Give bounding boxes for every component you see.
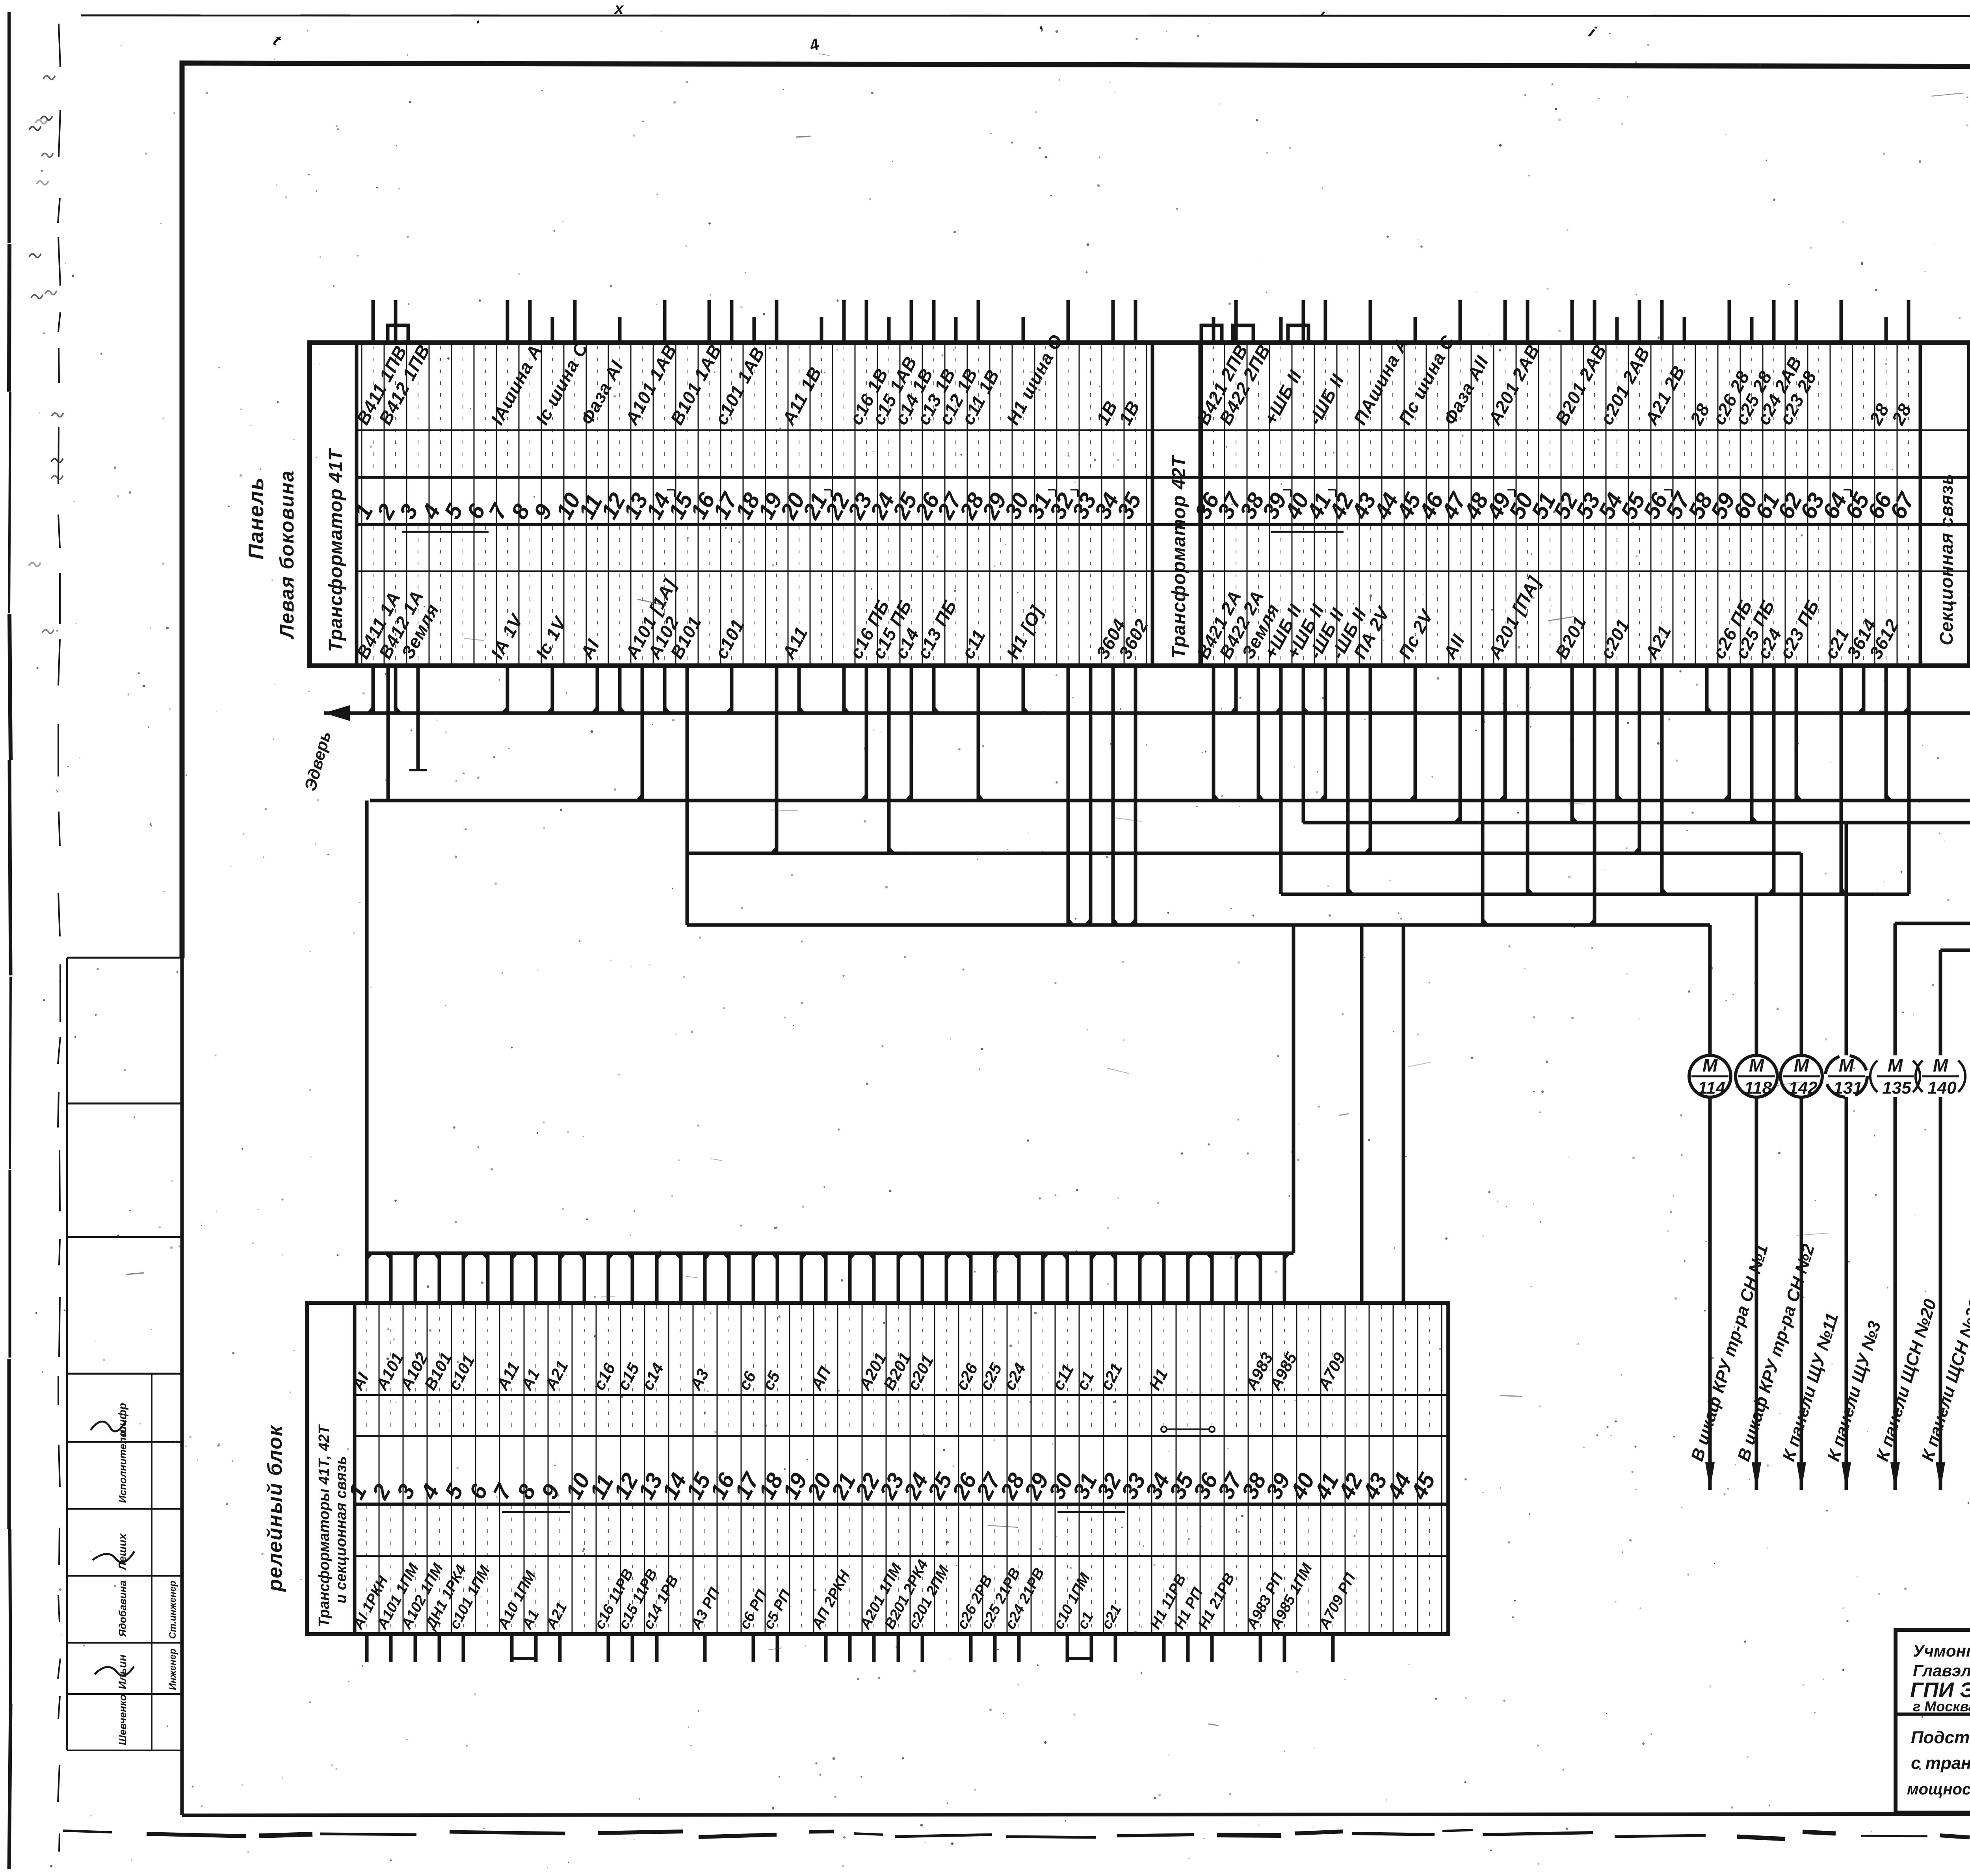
terminal strip: panel left side row: [310, 343, 1970, 666]
strip horizontal rule above bottom labels: [357, 570, 1970, 572]
wire: strip col40 to bus3 left end: [1302, 666, 1305, 823]
terminal 25: [888, 300, 937, 666]
terminal 41: [1302, 300, 1348, 666]
riser: gather bus end up to bus6: [1292, 925, 1295, 1253]
wire: relay 29 to gather bus: [1041, 1253, 1045, 1303]
terminal 44: [1369, 343, 1404, 666]
svg-text:131: 131: [1833, 1078, 1862, 1098]
relay terminal 6: [464, 1253, 493, 1634]
left margin stamp column: [67, 957, 182, 959]
terminal 4: [417, 343, 446, 666]
relay block rule below numbers: [355, 1503, 1448, 1506]
wire: relay 24 to gather bus: [921, 1253, 924, 1303]
relay terminal 42: [1333, 1303, 1368, 1634]
terminal 40: [1280, 300, 1328, 666]
wire: strip col15 long riser to bus6 (past bus4 corner): [686, 666, 689, 925]
svg-text:Учмонтажспецстрои СССР: Учмонтажспецстрои СССР: [1913, 1642, 1970, 1660]
terminal 33: [1067, 343, 1102, 666]
relay 26 bottom stub: [969, 1634, 973, 1662]
long riser to relay col 44: [1402, 925, 1405, 1303]
bus wire 7 (from M 135): [1895, 922, 1970, 925]
svg-text:г Москва: г Москва: [1913, 1698, 1970, 1714]
relay 4 bottom stub: [438, 1634, 441, 1662]
jumper bracket marks in number row: [667, 489, 675, 490]
relay terminal 2: [367, 1253, 422, 1662]
svg-text:114: 114: [1698, 1078, 1725, 1098]
wire: terminal 43 drop: [1369, 666, 1372, 853]
terminal 59: [1706, 300, 1756, 666]
wire: relay 4 to gather bus: [438, 1253, 441, 1303]
svg-text:140: 140: [1927, 1078, 1957, 1098]
title block frame: [1896, 1630, 1970, 1813]
left dashed margin line: [59, 24, 60, 67]
wire: terminal 32 drop: [1067, 666, 1070, 925]
wire: terminal 19 drop: [775, 666, 779, 853]
svg-text:Ильин: Ильин: [116, 1655, 128, 1689]
svg-text:Панель: Панель: [244, 477, 268, 559]
terminal 17: [708, 300, 769, 666]
terminal 49: [1481, 300, 1545, 666]
wire: strip col2-area second drop to bus2: [387, 666, 390, 801]
header box: Трансформатор 42Т: [1152, 343, 1200, 666]
wire: relay 23 to gather bus: [897, 1253, 900, 1303]
relay 20 bottom stub: [824, 1634, 828, 1662]
svg-text:и секционная связь: и секционная связь: [333, 1456, 349, 1603]
relay terminal 32: [1092, 1253, 1126, 1662]
relay 5 bottom stub: [462, 1634, 465, 1662]
relay 21 bottom stub: [848, 1634, 852, 1662]
wire: terminal 49 drop: [1504, 666, 1507, 801]
wire: terminal 60 drop: [1750, 666, 1754, 823]
wire: terminal 48 drop: [1481, 666, 1485, 925]
wire: terminal 26 drop: [932, 666, 936, 713]
terminal 67: [1885, 300, 1920, 666]
relay 1 bottom stub: [365, 1634, 369, 1662]
relay terminal 19: [778, 1253, 812, 1634]
wire: terminal 53 drop: [1593, 666, 1596, 925]
relay 39 bottom stub: [1283, 1634, 1286, 1662]
relay terminal 18: [754, 1253, 795, 1662]
wire: relay 33 to gather bus: [1138, 1253, 1142, 1303]
svg-text:М: М: [1839, 1055, 1855, 1075]
wire: relay 10 to gather bus: [583, 1253, 586, 1303]
relay terminal 35: [1164, 1253, 1206, 1662]
relay terminal 26: [947, 1253, 996, 1662]
svg-text:Леших: Леших: [116, 1533, 128, 1571]
terminal 15: [663, 341, 725, 666]
svg-text:Левая боковина: Левая боковина: [276, 470, 298, 639]
terminal 1: [349, 300, 411, 666]
svg-text:Секционная связь: Секционная связь: [1936, 474, 1957, 645]
terminal 23: [843, 300, 894, 666]
relay 28 bottom stub: [1017, 1634, 1021, 1662]
relay terminal 9: [536, 1253, 572, 1662]
relay 13 bottom stub: [655, 1634, 659, 1662]
svg-text:М: М: [1933, 1055, 1949, 1075]
wire: terminal 11 drop: [596, 666, 599, 713]
cable circuit M 114: [1688, 925, 1772, 1490]
relay terminal 24: [899, 1253, 953, 1662]
terminal 20: [775, 343, 826, 666]
wire: relay 32 to gather bus: [1114, 1253, 1117, 1303]
strip horizontal rule under top labels: [357, 429, 1970, 431]
wire: terminal 41 drop: [1324, 666, 1327, 801]
wire: terminal 28 drop: [977, 666, 980, 801]
underline below numbers 3-5: [402, 531, 489, 533]
wire: relay 1 to gather bus: [365, 1253, 369, 1303]
relay terminal 17: [730, 1253, 771, 1662]
relay terminal 4: [416, 1253, 470, 1662]
left margin scan scribbles: [29, 254, 41, 258]
terminal 62: [1773, 300, 1823, 666]
relay 23 bottom stub: [897, 1634, 900, 1662]
wire: terminal 7 drop: [506, 666, 509, 713]
relay 36 bottom stub: [1210, 1634, 1214, 1662]
relay 17 bottom stub: [752, 1634, 755, 1662]
relay 12 bottom stub: [631, 1634, 634, 1662]
relay terminal 8: [512, 1253, 543, 1662]
relay terminal 14: [657, 1253, 692, 1634]
relay 9 bottom stub: [558, 1634, 562, 1662]
svg-text:Исполнители: Исполнители: [117, 1431, 128, 1503]
wire: strip col67 down to bus5 right end: [1907, 666, 1911, 894]
terminal 42: [1324, 343, 1371, 666]
wire: terminal 36 drop: [1212, 666, 1215, 801]
wire: relay 19 to gather bus: [800, 1253, 803, 1303]
terminal 63: [1795, 343, 1830, 666]
wire: terminal 33 drop: [1089, 666, 1093, 925]
wire: relay 3 to gather bus: [414, 1253, 417, 1303]
terminal 68: [1963, 300, 1970, 666]
relay 22 bottom stub: [872, 1634, 876, 1662]
relay terminal 25: [923, 1253, 957, 1634]
wire: terminal 1 drop: [372, 666, 375, 713]
relay terminal 21: [826, 1253, 861, 1662]
relay block rule above bottom labels: [355, 1555, 1448, 1557]
terminal 24: [865, 317, 921, 666]
wire: terminal 2 drop: [394, 666, 398, 713]
wire: relay 35 to gather bus: [1186, 1253, 1190, 1303]
terminal 16: [686, 300, 720, 666]
wire: relay 7 to gather bus: [510, 1253, 514, 1303]
svg-text:мощностью от 6,3до25МВа: мощностью от 6,3до25МВа: [1907, 1781, 1970, 1798]
wire: terminal 13 drop: [641, 666, 644, 801]
terminal 14: [641, 300, 683, 666]
wire: relay 5 to gather bus: [462, 1253, 465, 1303]
svg-text:Инженер: Инженер: [167, 1649, 178, 1690]
wire: relay 12 to gather bus: [631, 1253, 634, 1303]
relay 31 bottom stub: [1090, 1634, 1093, 1662]
relay gather bus: [367, 1252, 1294, 1255]
terminal 30: [1000, 317, 1067, 666]
relay block terminal row: [307, 1303, 1448, 1634]
relay terminal 36: [1188, 1253, 1238, 1662]
relay 18 bottom stub: [776, 1634, 779, 1662]
relay terminal 39: [1261, 1253, 1316, 1662]
wire: relay 26 to gather bus: [969, 1253, 973, 1303]
terminal 26: [910, 300, 961, 666]
underline below relay numbers 7-9: [502, 1511, 570, 1513]
terminal 56: [1638, 300, 1689, 666]
relay terminal 12: [609, 1253, 661, 1662]
wire: relay 38 to gather bus: [1259, 1253, 1262, 1303]
relay terminal 37: [1213, 1253, 1248, 1634]
wire: relay 18 to gather bus: [776, 1253, 779, 1303]
cable circuit M 131: [1824, 823, 1885, 1490]
underline below numbers 39-41: [1271, 531, 1344, 533]
relay loop symbol below cols 30-31: [1067, 1634, 1091, 1659]
header box: Секционная связь: [1920, 343, 1969, 666]
wire: terminal 30 drop: [1022, 666, 1025, 713]
relay terminal 29: [1019, 1253, 1054, 1634]
relay terminal 16: [705, 1253, 740, 1634]
wire: terminal 17 drop: [730, 666, 734, 713]
relay terminal 3: [392, 1253, 447, 1662]
relay terminal 7: [488, 1253, 539, 1662]
wire: relay 27 to gather bus: [993, 1253, 997, 1303]
terminal 7: [484, 300, 546, 666]
relay 3 bottom stub: [414, 1634, 417, 1662]
wire: terminal 47 drop: [1459, 666, 1462, 823]
relay terminal 11: [585, 1253, 637, 1662]
long wire: bus2 down to relay gather: [365, 801, 369, 1253]
terminal 21: [798, 317, 833, 666]
svg-text:релейный блок: релейный блок: [264, 1425, 286, 1592]
header box: Трансформатор 41Т: [310, 343, 357, 666]
terminal 38: [1235, 343, 1283, 666]
relay terminal 30: [1044, 1253, 1094, 1662]
wire: terminal 56 drop: [1660, 666, 1664, 894]
terminal 61: [1750, 300, 1806, 666]
relay terminal 13: [633, 1253, 682, 1662]
terminal 19: [753, 300, 788, 666]
terminal 46: [1414, 343, 1449, 666]
terminal 51: [1526, 343, 1561, 666]
door loop symbols above strip: [388, 325, 408, 342]
wire: relay 31 to gather bus: [1090, 1253, 1093, 1303]
wire: relay 6 to gather bus: [486, 1253, 490, 1303]
wire: terminal 39 drop: [1279, 666, 1283, 713]
wire: terminal 40 drop: [1302, 666, 1305, 713]
wire: terminal 38 drop: [1257, 666, 1260, 801]
relay 15 bottom stub: [703, 1634, 707, 1662]
relay terminal 38: [1237, 1253, 1287, 1662]
bus wire 8 (from M 140): [1940, 949, 1970, 952]
wire: relay 14 to gather bus: [679, 1253, 683, 1303]
terminal 50: [1504, 300, 1539, 666]
wire: terminal 24 drop: [887, 666, 891, 853]
svg-text:Трансформатор 42Т: Трансформатор 42Т: [1169, 455, 1189, 659]
ground stub wire (Земля) col 3: [416, 666, 420, 770]
relay terminal 44: [1382, 1303, 1416, 1634]
relay terminal 5: [440, 1253, 494, 1662]
relay 38 bottom stub: [1259, 1634, 1262, 1662]
relay block rule above numbers: [355, 1435, 1448, 1437]
rough scan bottom smudge line: [63, 1831, 112, 1832]
terminal 66: [1862, 317, 1903, 666]
frame left edge lower part: [180, 958, 184, 1815]
terminal 12: [596, 317, 631, 666]
relay loop symbol below cols 7-8: [512, 1634, 536, 1659]
svg-text:М: М: [1794, 1055, 1810, 1075]
terminal 53: [1571, 300, 1606, 666]
stamp table divider: [151, 1374, 152, 1750]
underline below relay numbers 30-32: [1057, 1511, 1125, 1513]
strip double rule below numbers: [357, 523, 1970, 526]
wire: terminal 22 drop: [842, 666, 846, 713]
terminal 43: [1347, 300, 1412, 666]
wire: relay 9 to gather bus: [558, 1253, 562, 1303]
relay 2 bottom stub: [389, 1634, 393, 1662]
svg-text:Главэлектромонтаж: Главэлектромонтаж: [1913, 1661, 1970, 1680]
terminal 28: [955, 300, 1004, 666]
wire: terminal 12 drop: [618, 666, 622, 713]
cable circuit M 118: [1734, 894, 1819, 1490]
svg-text:142: 142: [1788, 1078, 1818, 1098]
top border thin line: [81, 15, 1970, 16]
terminal 5: [439, 343, 468, 666]
wire: terminal 20 drop: [797, 666, 801, 713]
relay terminal 40: [1285, 1303, 1320, 1634]
title block: org cell: [1896, 1713, 1970, 1716]
relay terminal 33: [1116, 1253, 1151, 1634]
terminal 22: [820, 300, 855, 666]
strip horizontal rule above numbers: [357, 476, 1970, 479]
svg-text:Ст.инженер: Ст.инженер: [167, 1581, 178, 1639]
svg-text:М: М: [1749, 1055, 1765, 1075]
bus wire 3: [1303, 821, 1970, 825]
relay terminal 34: [1140, 1253, 1189, 1662]
bus wire 5 (to M 118): [1281, 893, 1909, 896]
svg-text:Ядобавина: Ядобавина: [117, 1581, 128, 1637]
svg-text:Трансформатор 41Т: Трансформатор 41Т: [325, 448, 346, 652]
relay terminal 41: [1309, 1303, 1359, 1662]
stamp table rows: [67, 1441, 182, 1443]
wire: relay 25 to gather bus: [945, 1253, 948, 1303]
wire: terminal 14 drop: [663, 666, 667, 713]
terminal 65: [1840, 343, 1881, 666]
wire: relay 16 to gather bus: [727, 1253, 731, 1303]
wire: terminal 65 drop: [1862, 666, 1866, 713]
wire: terminal 61 drop: [1772, 666, 1776, 894]
relay terminal 23: [875, 1253, 932, 1662]
wire: relay 13 to gather bus: [655, 1253, 659, 1303]
terminal 35: [1112, 300, 1152, 666]
terminal 6: [462, 343, 491, 666]
terminal 29: [977, 343, 1012, 666]
relay terminal 1: [343, 1253, 392, 1662]
wire: relay 8 to gather bus: [534, 1253, 538, 1303]
wire: terminal 50 drop: [1526, 666, 1530, 894]
svg-text:М: М: [1702, 1055, 1718, 1075]
relay 27 bottom stub: [993, 1634, 997, 1662]
svg-text:Трансформаторы 41Т, 42Т: Трансформаторы 41Т, 42Т: [316, 1424, 333, 1627]
svg-text:Подстанции 110/6-10кВ: Подстанции 110/6-10кВ: [1911, 1728, 1970, 1747]
relay terminal 45: [1406, 1303, 1442, 1634]
svg-text:М: М: [1888, 1055, 1903, 1075]
terminal 47: [1437, 300, 1493, 666]
wire: terminal 35 drop: [1134, 666, 1137, 925]
relay terminal 22: [850, 1253, 905, 1662]
terminal 31: [1022, 343, 1057, 666]
long riser to relay col 42: [1360, 925, 1364, 1303]
relay block rule under top labels: [355, 1394, 1448, 1396]
relay header box: Трансформаторы 41Т,42Т и секционная связь: [307, 1303, 355, 1634]
terminal 13: [619, 341, 680, 666]
relay 34 bottom stub: [1162, 1634, 1166, 1662]
wire: terminal 34 drop: [1111, 666, 1115, 925]
wire: terminal 42 drop: [1346, 666, 1350, 894]
link mark o--o above relay numbers 34-36: [1161, 1427, 1167, 1432]
relay 11 bottom stub: [607, 1634, 610, 1662]
wire: terminal 25 drop: [910, 666, 913, 801]
stamp signatures (scribbles): [91, 1421, 126, 1431]
wire: relay 17 to gather bus: [752, 1253, 755, 1303]
relay terminal 10: [561, 1253, 595, 1634]
wire: terminal 59 drop: [1728, 666, 1731, 801]
relay 24 bottom stub: [921, 1634, 924, 1662]
wire: relay 21 to gather bus: [848, 1253, 852, 1303]
wire: terminal 54 drop: [1615, 666, 1619, 801]
terminal 9: [529, 317, 592, 666]
terminal 45: [1392, 317, 1459, 666]
wire: terminal 45 drop: [1414, 666, 1417, 801]
wire: terminal 58 drop: [1705, 666, 1709, 713]
wire: terminal 9 drop: [551, 666, 554, 713]
svg-text:118: 118: [1744, 1078, 1772, 1098]
bus wire 2: [370, 799, 1970, 802]
wire: relay 39 to gather bus: [1283, 1253, 1286, 1303]
wire: relay 36 to gather bus: [1210, 1253, 1214, 1303]
relay terminal 28: [995, 1253, 1048, 1662]
terminal 64: [1818, 300, 1853, 666]
terminal 54: [1593, 317, 1654, 666]
wire: relay 2 to gather bus: [389, 1253, 393, 1303]
wire: relay 20 to gather bus: [824, 1253, 828, 1303]
relay terminal 20: [802, 1253, 854, 1662]
terminal 11: [574, 343, 627, 666]
svg-text:x: x: [614, 0, 624, 17]
wire: relay 34 to gather bus: [1162, 1253, 1166, 1303]
terminal 27: [932, 317, 982, 666]
terminal 34: [1089, 300, 1130, 666]
terminal 55: [1616, 300, 1650, 666]
relay terminal 27: [971, 1253, 1024, 1662]
relay 41 bottom stub: [1331, 1634, 1335, 1662]
relay terminal 15: [681, 1253, 723, 1662]
relay 8 bottom stub: [534, 1634, 538, 1662]
wire: terminal 55 drop: [1638, 666, 1641, 853]
terminal 60: [1728, 317, 1779, 666]
wire: terminal 67 drop: [1907, 666, 1911, 713]
wire: terminal 66 drop: [1885, 666, 1888, 801]
wire: terminal 37 drop: [1234, 666, 1238, 713]
cable circuit M 140: [1916, 950, 1970, 1490]
wire: relay 37 to gather bus: [1235, 1253, 1238, 1303]
terminal 57: [1661, 317, 1696, 666]
wire: relay 15 to gather bus: [703, 1253, 707, 1303]
svg-text:Шевченко: Шевченко: [117, 1694, 128, 1745]
wire: relay 11 to gather bus: [607, 1253, 610, 1303]
terminal 18: [730, 317, 765, 666]
relay 35 bottom stub: [1186, 1634, 1190, 1662]
svg-text:135: 135: [1882, 1078, 1911, 1098]
cable circuit M 135: [1870, 923, 1940, 1490]
wire: terminal 64 drop: [1840, 666, 1843, 894]
wire: strip col39 to bus5 start: [1279, 666, 1283, 894]
wire: relay 30 to gather bus: [1066, 1253, 1069, 1303]
wire: terminal 23 drop: [865, 666, 868, 801]
